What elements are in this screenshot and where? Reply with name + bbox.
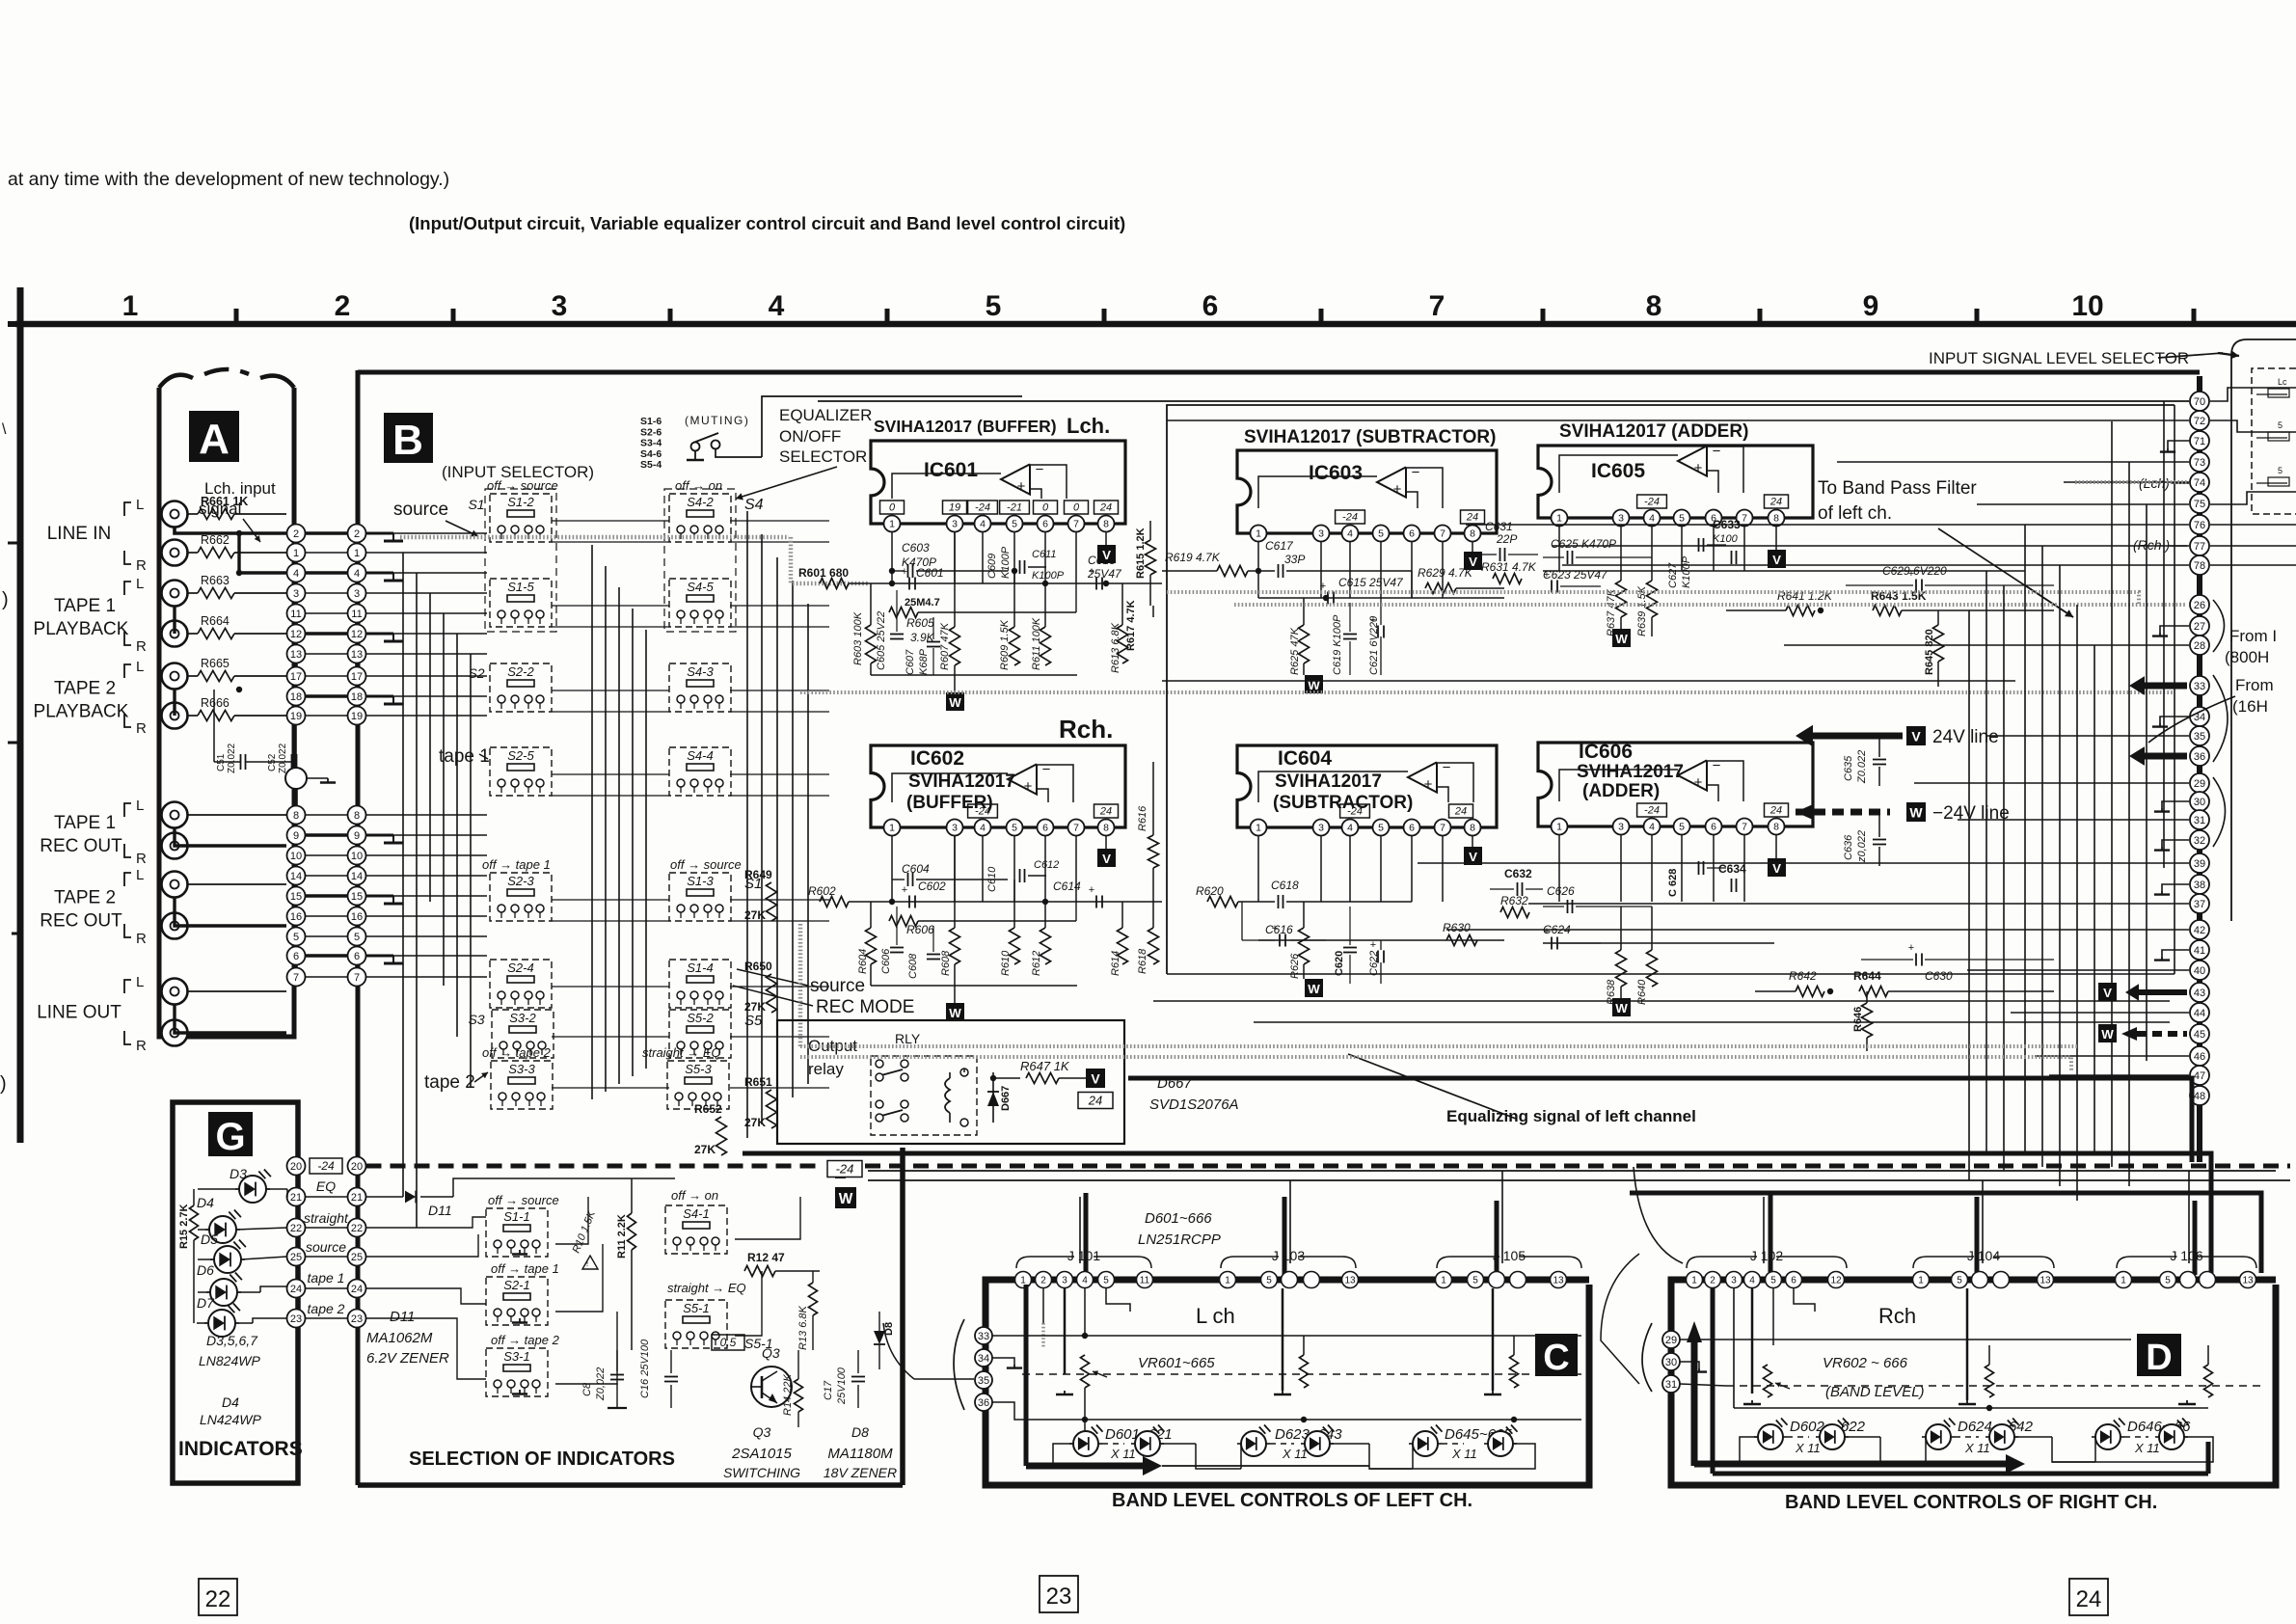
pin 43 connector column — [2190, 983, 2209, 1002]
pin 11 column1 — [287, 605, 306, 623]
svg-text:R608: R608 — [940, 950, 952, 976]
svg-text:36: 36 — [2194, 751, 2205, 763]
svg-text:5: 5 — [1378, 528, 1384, 540]
power tag V under IC604 pin8 — [1472, 835, 1473, 847]
wire second feed line — [1167, 420, 2189, 421]
svg-text:8: 8 — [354, 810, 360, 822]
svg-text:-24: -24 — [1644, 497, 1660, 508]
bracket TAPE 1 REC OUT — [124, 803, 131, 817]
svg-text:at any time with the developm: at any time with the development of new … — [8, 169, 449, 190]
leader to level selector box — [2158, 353, 2223, 358]
svg-text:+: + — [1370, 614, 1376, 626]
fat arrow from 16Hz filter — [2140, 753, 2187, 760]
svg-text:Q3: Q3 — [762, 1345, 780, 1361]
wire between pin columns — [306, 571, 348, 574]
svg-text:3: 3 — [1318, 823, 1324, 834]
svg-text:C612: C612 — [1034, 859, 1059, 871]
svg-text:24V line: 24V line — [1932, 727, 1999, 747]
svg-text:R: R — [136, 557, 147, 574]
svg-text:19: 19 — [949, 502, 960, 514]
switch S4-5 — [669, 579, 731, 627]
svg-text:tape 2: tape 2 — [424, 1072, 475, 1093]
svg-text:24: 24 — [1099, 502, 1112, 514]
wire signal bus under IC602 — [892, 901, 1162, 903]
svg-text:): ) — [0, 1073, 7, 1095]
power tag V relay — [1086, 1069, 1105, 1088]
svg-text:W: W — [1308, 678, 1320, 692]
svg-text:C601: C601 — [916, 566, 944, 580]
svg-text:LINE OUT: LINE OUT — [37, 1003, 122, 1023]
brace left of pins 29-31 — [1642, 1323, 1652, 1392]
svg-text:0.5: 0.5 — [720, 1336, 737, 1349]
svg-text:straight → EQ: straight → EQ — [642, 1045, 721, 1060]
pin value label -24 of IC605 — [1637, 495, 1667, 508]
pin value label 0 of IC601 — [1034, 501, 1058, 514]
pin 44 connector column — [2190, 1003, 2209, 1022]
switch S4-2 — [669, 494, 731, 542]
svg-text:X 11: X 11 — [1282, 1447, 1308, 1461]
svg-text:S4-5: S4-5 — [687, 580, 714, 594]
svg-text:24: 24 — [1466, 512, 1478, 524]
pin 28 connector column — [2190, 636, 2209, 655]
switch S1-3 — [669, 873, 731, 921]
svg-text:S2-5: S2-5 — [507, 748, 534, 763]
LED group D646-666 — [2095, 1424, 2120, 1449]
block A wavy top — [159, 375, 193, 388]
svg-text:PLAYBACK: PLAYBACK — [34, 702, 129, 722]
wire tape1 pb bus — [173, 606, 176, 634]
svg-text:35: 35 — [978, 1375, 989, 1387]
svg-text:R609 1.5K: R609 1.5K — [999, 619, 1011, 670]
svg-text:S4-2: S4-2 — [687, 495, 714, 509]
dashed VR bus D — [1726, 1385, 2266, 1387]
bracket LINE IN — [124, 502, 131, 516]
power tag V under IC606 pin8 — [1775, 834, 1777, 858]
svg-text:PLAYBACK: PLAYBACK — [34, 619, 129, 639]
block B top edge — [358, 370, 2200, 375]
pin 4 of IC606 — [1644, 819, 1661, 835]
pin value label 0 of IC601 — [1065, 501, 1089, 514]
svg-text:+: + — [1393, 481, 1402, 498]
pin 2 connector — [1705, 1272, 1721, 1288]
ground after pin 41 — [2162, 950, 2189, 957]
pin 6 of IC604 — [1404, 820, 1420, 836]
svg-text:5: 5 — [1266, 1276, 1272, 1286]
svg-text:46: 46 — [2194, 1051, 2205, 1063]
svg-text:J 105: J 105 — [1493, 1248, 1526, 1263]
pin 3 of IC602 — [947, 820, 963, 836]
svg-text:MA1180M: MA1180M — [827, 1446, 893, 1462]
svg-text:2: 2 — [354, 528, 360, 540]
pin 3 of IC605 — [1613, 510, 1630, 527]
LED group D623-643 — [1241, 1431, 1266, 1456]
op-amp IC602 triangle — [1008, 764, 1037, 794]
thick stub into J103 — [1283, 1197, 1287, 1275]
svg-text:+: + — [1017, 478, 1026, 495]
power tag W under IC601 — [946, 692, 964, 711]
wire stub rows into selector — [2210, 388, 2296, 401]
svg-text:IC604: IC604 — [1278, 747, 1332, 770]
svg-text:1: 1 — [354, 548, 360, 559]
svg-text:X 11: X 11 — [1451, 1447, 1477, 1461]
wire LED chain C — [1053, 1444, 1073, 1466]
svg-text:R616: R616 — [1137, 805, 1148, 831]
svg-text:!: ! — [586, 1259, 589, 1268]
svg-text:R: R — [136, 720, 147, 737]
svg-text:D5: D5 — [201, 1232, 218, 1247]
svg-text:IC603: IC603 — [1309, 462, 1363, 484]
svg-text:LN824WP: LN824WP — [199, 1353, 260, 1368]
block G frame — [173, 1102, 298, 1483]
wire long bus B thin — [868, 1170, 2276, 1172]
svg-text:+: + — [1370, 939, 1376, 951]
svg-text:72: 72 — [2194, 416, 2205, 427]
svg-text:S1: S1 — [468, 497, 484, 512]
svg-text:J 101: J 101 — [1067, 1248, 1100, 1263]
wire long bus A — [743, 1153, 2211, 1273]
svg-text:S4-4: S4-4 — [687, 748, 713, 763]
pin value label -24 of IC606 — [1637, 803, 1667, 817]
brace pins 26-28 — [2213, 600, 2225, 652]
pin 73 connector column — [2190, 452, 2209, 472]
svg-text:R642: R642 — [1789, 969, 1817, 983]
svg-text:R13 6.8K: R13 6.8K — [797, 1305, 809, 1350]
svg-text:R652: R652 — [694, 1102, 722, 1116]
relay contacts — [876, 1060, 883, 1068]
pin 12 connector — [1828, 1272, 1845, 1288]
svg-text:ON/OFF: ON/OFF — [779, 427, 841, 446]
switch S1-1 — [486, 1208, 548, 1257]
speckled wire to pin 26 — [1234, 603, 2187, 607]
switch S2-3 — [490, 873, 552, 921]
svg-text:4: 4 — [1649, 822, 1655, 833]
svg-text:7: 7 — [1073, 823, 1079, 834]
pin 19 column2 — [348, 707, 366, 725]
block A frame — [159, 388, 294, 1037]
svg-text:X 11: X 11 — [1795, 1441, 1821, 1455]
svg-text:9: 9 — [1863, 290, 1879, 322]
pin nc connector — [1993, 1272, 2010, 1288]
svg-text:5: 5 — [293, 932, 299, 943]
svg-text:S2-2: S2-2 — [507, 664, 534, 679]
pins 29-31 block D — [1662, 1331, 1680, 1348]
jack TAPE 1 REC OUT R — [162, 833, 188, 859]
svg-text:TAPE 2: TAPE 2 — [54, 679, 116, 699]
svg-text:+: + — [1424, 776, 1433, 793]
boxed -24 near W — [827, 1161, 862, 1177]
wire muting to selector — [762, 396, 1022, 457]
jack TAPE 1 REC OUT L — [162, 802, 188, 828]
svg-text:1: 1 — [1556, 822, 1562, 833]
svg-text:BAND LEVEL CONTROLS OF RIG: BAND LEVEL CONTROLS OF RIGHT CH. — [1785, 1492, 2157, 1513]
svg-text:D11: D11 — [428, 1203, 452, 1218]
pin 13 connector — [2240, 1272, 2256, 1288]
wire IC603 internal — [1258, 476, 1377, 508]
svg-text:16: 16 — [351, 911, 363, 923]
svg-text:14: 14 — [351, 871, 363, 882]
svg-text:S3-2: S3-2 — [509, 1011, 536, 1025]
svg-text:D4: D4 — [222, 1394, 239, 1410]
jack LINE IN R — [162, 540, 188, 566]
pin 3 of IC606 — [1613, 819, 1630, 835]
svg-text:4: 4 — [1749, 1276, 1755, 1286]
svg-text:C623 25V47: C623 25V47 — [1543, 568, 1608, 582]
leader arrow selector to S4 — [736, 467, 837, 499]
svg-text:5: 5 — [2278, 466, 2282, 475]
svg-text:C: C — [1543, 1338, 1569, 1378]
pin value label -24 of IC601 — [968, 501, 998, 514]
svg-text:(MUTING): (MUTING) — [685, 414, 749, 427]
vertical wires right tangle — [2024, 525, 2026, 1152]
svg-text:G: G — [215, 1116, 245, 1158]
wire thick between J101-J103 — [1153, 1278, 1219, 1283]
svg-text:8: 8 — [1773, 513, 1779, 525]
subtractor box right edge — [2174, 405, 2175, 974]
pin 15 column1 — [287, 887, 306, 906]
svg-text:8: 8 — [1773, 822, 1779, 833]
ruler minor tick — [1758, 309, 1763, 322]
pin 33 connector column — [2190, 676, 2209, 695]
svg-text:off → source: off → source — [670, 857, 742, 872]
svg-text:(SUBTRACTOR): (SUBTRACTOR) — [1273, 793, 1413, 813]
svg-text:5: 5 — [1679, 513, 1685, 525]
power tag V under IC605 pin8 — [1775, 526, 1777, 550]
svg-text:6: 6 — [293, 951, 299, 962]
pin 78 connector column — [2190, 555, 2209, 575]
svg-text:−: − — [1443, 760, 1451, 776]
pin 13 column2 — [348, 645, 366, 663]
svg-text:L: L — [136, 659, 144, 675]
pin 21 column1 — [287, 1188, 306, 1206]
svg-text:C16 25V100: C16 25V100 — [639, 1339, 651, 1398]
pin 22 column1 — [287, 1219, 306, 1237]
svg-text:J 106: J 106 — [2170, 1248, 2202, 1263]
pin value label 24 of IC602 — [1094, 804, 1119, 818]
block D top edge — [1694, 1277, 2276, 1284]
svg-text:19: 19 — [351, 711, 363, 722]
svg-text:D7: D7 — [197, 1295, 215, 1311]
svg-text:SVIHA12017 (ADDER): SVIHA12017 (ADDER) — [1559, 421, 1748, 442]
pin 5 of IC602 — [1007, 820, 1023, 836]
svg-text:23: 23 — [351, 1313, 363, 1325]
svg-text:2SA1015: 2SA1015 — [731, 1446, 792, 1462]
power tag V with fat arrow at 24V line — [1808, 733, 1903, 740]
svg-text:S2-1: S2-1 — [503, 1278, 529, 1292]
jack TAPE 2 PLAYBACK L — [162, 663, 188, 690]
wire pin column 2 vertical — [355, 528, 359, 720]
pin 1 of IC601 — [884, 516, 901, 532]
wire inside C thick drop — [1024, 1285, 1029, 1466]
speckled vertical to equalizing bus — [798, 924, 803, 1046]
switch S5-3 — [667, 1061, 729, 1109]
pin 6 column2 — [348, 947, 366, 965]
svg-text:R619 4.7K: R619 4.7K — [1165, 551, 1221, 564]
svg-text:10: 10 — [351, 851, 363, 862]
block B frame — [356, 370, 361, 1485]
svg-text:+: + — [1544, 926, 1550, 937]
svg-text:LINE IN: LINE IN — [47, 524, 112, 544]
pin 8 of IC604 — [1465, 820, 1481, 836]
pin 6 of IC603 — [1404, 526, 1420, 542]
svg-text:R11 2.2K: R11 2.2K — [616, 1214, 628, 1259]
svg-text:+: + — [1024, 778, 1033, 795]
pin 26 connector column — [2190, 595, 2209, 614]
svg-text:5: 5 — [1770, 1276, 1776, 1286]
svg-text:C611: C611 — [1032, 549, 1056, 560]
svg-text:INDICATORS: INDICATORS — [178, 1438, 303, 1460]
pin 4 of IC604 — [1342, 820, 1359, 836]
wire dashes J101 — [1115, 1279, 1136, 1281]
svg-text:Z0.022: Z0.022 — [1856, 750, 1868, 784]
leader REC MODE — [733, 986, 813, 1006]
svg-text:1: 1 — [889, 519, 895, 530]
power tag W on -24 bus — [835, 1187, 856, 1208]
pin 4 of IC601 — [975, 516, 991, 532]
svg-text:C635: C635 — [1843, 755, 1854, 781]
svg-text:Z0,022: Z0,022 — [595, 1367, 607, 1401]
svg-text:-21: -21 — [1007, 502, 1022, 514]
svg-text:30: 30 — [1665, 1357, 1677, 1368]
svg-text:R665: R665 — [201, 657, 230, 670]
svg-text:straight → EQ: straight → EQ — [667, 1281, 746, 1295]
wire IC604 pin drops — [1257, 835, 1259, 902]
wire between pin columns — [306, 854, 348, 856]
svg-text:off → tape 1: off → tape 1 — [491, 1261, 559, 1276]
svg-text:−: − — [1713, 444, 1721, 460]
svg-text:W: W — [1308, 982, 1320, 996]
svg-text:C618: C618 — [1271, 879, 1299, 892]
switch S3-2 — [492, 1010, 554, 1058]
pin 3 column1 — [287, 584, 306, 603]
ruler minor tick — [1319, 309, 1324, 322]
LED group D602-622 — [1758, 1424, 1783, 1449]
svg-text:1: 1 — [1441, 1276, 1446, 1286]
wire long bus D thick — [1630, 1193, 2261, 1273]
svg-text:C609: C609 — [986, 554, 998, 579]
pin 47 connector column — [2190, 1066, 2209, 1085]
svg-text:TAPE 1: TAPE 1 — [54, 813, 116, 833]
pin 1 column1 — [287, 544, 306, 562]
wire bus under IC603 — [1258, 597, 1504, 599]
svg-text:C631: C631 — [1485, 520, 1513, 533]
svg-text:S4-3: S4-3 — [687, 664, 714, 679]
wire long bus C thin — [868, 1179, 2290, 1181]
pin 6 of IC602 — [1038, 820, 1054, 836]
pin 27 connector column — [2190, 616, 2209, 636]
pin value label -24 of IC604 — [1340, 804, 1370, 818]
pin 22 column2 — [348, 1219, 366, 1237]
svg-text:V: V — [1469, 555, 1477, 569]
dashed VR bus — [1022, 1373, 1581, 1375]
wire IC603 out bus right — [1411, 571, 1413, 598]
svg-text:C603: C603 — [902, 541, 930, 555]
pin 3 connector — [1726, 1272, 1742, 1288]
svg-text:-24: -24 — [317, 1159, 335, 1173]
connector J 102 brace — [1687, 1257, 1847, 1268]
wire between pin columns — [306, 833, 348, 836]
pin 21 column2 — [348, 1188, 366, 1206]
ground stub — [366, 695, 394, 698]
svg-text:C627: C627 — [1667, 562, 1679, 588]
svg-text:12: 12 — [1830, 1276, 1842, 1286]
svg-text:−: − — [1713, 758, 1721, 774]
ruler left bar top tick — [8, 321, 35, 327]
relay coil — [945, 1078, 950, 1113]
wire LED chain D — [1740, 1437, 1758, 1462]
svg-text:R604: R604 — [857, 949, 869, 974]
svg-text:−: − — [1042, 762, 1051, 778]
box around subtractor-adder Lch row — [1167, 405, 2174, 974]
ground after pin 32 — [2162, 840, 2189, 847]
svg-text:11: 11 — [351, 609, 362, 620]
ground stub — [366, 834, 394, 837]
op-amp IC603 triangle — [1377, 467, 1406, 497]
resistor R662 — [188, 552, 199, 554]
pin 46 connector column — [2190, 1046, 2209, 1066]
power tag V fat arrow at pin 43 — [2135, 989, 2187, 995]
svg-text:−: − — [1412, 465, 1420, 481]
pin 6 of IC606 — [1706, 819, 1722, 835]
subtractor box bottom edge — [1167, 973, 2174, 975]
svg-text:R631 4.7K: R631 4.7K — [1481, 560, 1537, 574]
svg-text:6: 6 — [354, 951, 360, 962]
svg-text:C632: C632 — [1504, 867, 1532, 880]
svg-text:D: D — [2146, 1338, 2172, 1378]
svg-text:C614: C614 — [1053, 880, 1081, 893]
svg-text:73: 73 — [2194, 457, 2205, 469]
svg-text:R651: R651 — [744, 1075, 772, 1089]
resistor R664 — [188, 633, 199, 635]
switch S1-2 — [490, 494, 552, 542]
svg-text:6: 6 — [1409, 823, 1415, 834]
diode D8 — [878, 1312, 880, 1331]
pin 11 connector — [1137, 1272, 1153, 1288]
wire tangle right of adders — [1837, 461, 2189, 463]
svg-text:15: 15 — [351, 891, 363, 903]
svg-text:75: 75 — [2194, 499, 2205, 510]
svg-text:L: L — [136, 867, 144, 883]
connector J 101 brace — [1016, 1257, 1151, 1268]
svg-text:5: 5 — [1012, 519, 1017, 530]
capacitor C611 — [1019, 560, 1021, 574]
svg-text:1: 1 — [293, 548, 299, 559]
svg-text:11: 11 — [1140, 1276, 1150, 1286]
svg-text:25M4.7: 25M4.7 — [905, 597, 940, 609]
wire long line under Lch ICs — [1162, 680, 2015, 682]
wire between pin columns — [306, 612, 348, 614]
page number 22 — [199, 1579, 237, 1615]
svg-text:2: 2 — [335, 290, 351, 322]
pin 4 column1 — [287, 564, 306, 582]
power tag V at IC601 pin8 — [1105, 531, 1107, 545]
svg-text:29: 29 — [2194, 778, 2205, 790]
svg-text:30: 30 — [2194, 797, 2205, 808]
switch group box S1 — [485, 489, 556, 632]
svg-text:70: 70 — [2194, 396, 2205, 408]
wire between pin columns — [306, 592, 348, 594]
svg-text:27K: 27K — [694, 1143, 716, 1156]
pin 29 connector column — [2190, 773, 2209, 793]
wire line-out bus — [175, 1004, 286, 1033]
wire long lower bus 2 — [1254, 1021, 2170, 1023]
svg-text:28: 28 — [2194, 640, 2205, 652]
svg-text:RLY: RLY — [895, 1031, 921, 1046]
block A tag — [189, 411, 239, 462]
pin 13 connector — [2038, 1272, 2054, 1288]
svg-text:L: L — [136, 497, 144, 513]
speckled Lch path top — [400, 535, 789, 540]
svg-text:R639 1.5K: R639 1.5K — [1636, 585, 1648, 636]
